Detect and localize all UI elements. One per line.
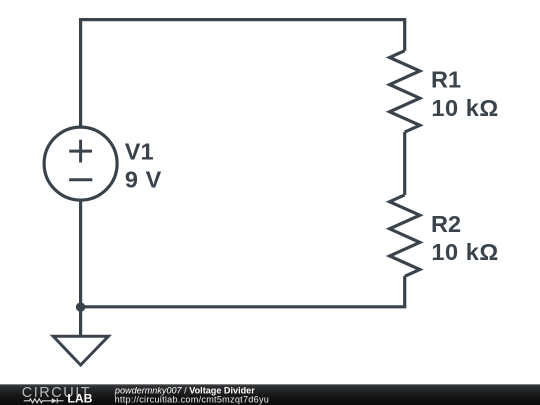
CircuitLab logo doodle: wire, resistor, diode [24,398,64,403]
svg-text:10 kΩ: 10 kΩ [431,95,498,121]
V1 minus symbol [69,178,92,181]
ground symbol triangle [53,336,108,365]
svg-text:R1: R1 [431,67,461,93]
node junction dot at ground net [76,302,85,311]
wire (R2 bottom, right vertical and bottom horizontal to ground node) [81,276,405,307]
svg-text:9 V: 9 V [125,167,162,193]
svg-text:LAB: LAB [67,392,92,405]
wire (ground node to ground symbol) [79,307,82,337]
svg-text:10 kΩ: 10 kΩ [431,239,498,265]
wire (V1+ node: left vertical, top horizontal, right vertical to R1) [81,20,405,128]
svg-text:http://circuitlab.com/cmt5mzqt: http://circuitlab.com/cmt5mzqt7d6yu [115,395,270,405]
wire (R1 to R2) [403,132,406,195]
svg-text:R2: R2 [431,211,461,237]
V1 plus symbol [69,140,92,163]
resistor R2 [390,195,420,276]
svg-text:V1: V1 [125,139,154,165]
wire (ground node up to V1-) [79,200,82,307]
voltage source V1 circle [44,127,117,200]
resistor R1 [390,51,420,132]
